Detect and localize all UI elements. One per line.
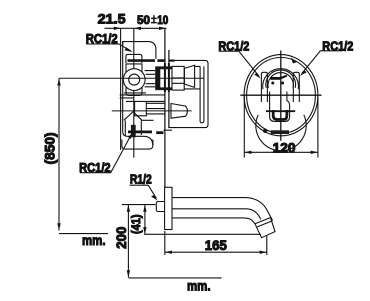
lever arm — [184, 66, 204, 122]
spout nipple — [156, 202, 164, 212]
svg-text:50: 50 — [137, 13, 150, 27]
spout tip bottom tangent line — [144, 233, 261, 235]
wall mounting nut thick C bracket — [155, 66, 172, 90]
temp indicator dots — [271, 82, 274, 85]
cartridge base lines — [120, 93, 165, 102]
handle hub trapezoid — [184, 65, 194, 87]
dimension arrow at x=166.2 — [159, 27, 166, 30]
spout tube top line — [172, 198, 273, 221]
spout flange — [165, 187, 172, 229]
leader R1/2 — [130, 185, 157, 198]
centerline of valve vertical — [133, 28, 135, 157]
front view crosshair horizontal — [240, 94, 321, 96]
valve body outline top — [123, 42, 156, 59]
extension line x=120.6 — [120, 28, 122, 150]
front view inner ellipse — [247, 58, 316, 134]
extension line 165 right — [266, 236, 268, 255]
svg-text:120: 120 — [273, 141, 296, 156]
spout tube bottom line — [172, 218, 255, 224]
lower port outlet lines left of wall — [146, 103, 165, 114]
svg-text:200: 200 — [114, 227, 129, 249]
dimension arrow at x=121 — [114, 27, 121, 30]
bulb inner thick ring — [273, 110, 287, 120]
port tube lines right of circle — [145, 71, 156, 87]
right ear lug — [293, 72, 299, 102]
outlet thick channel — [128, 130, 152, 133]
lower port centerline — [112, 110, 192, 112]
dimension 165 — [165, 251, 267, 253]
svg-text:(850): (850) — [42, 132, 57, 164]
top port inner circle — [129, 74, 140, 85]
chord line — [266, 110, 295, 112]
thick channel bar right of wall — [170, 59, 175, 61]
index mark top-right — [291, 58, 297, 64]
temp indicator bar — [270, 77, 280, 80]
valve seat sides — [125, 120, 153, 136]
dark bar under bulb — [271, 130, 289, 134]
extension line 165 left — [164, 231, 166, 255]
dimension 120 — [244, 95, 318, 157]
valve body left edge — [123, 42, 153, 146]
svg-text:10: 10 — [157, 13, 168, 27]
outer trim bracket — [168, 60, 208, 127]
handle base circle — [256, 115, 306, 151]
svg-text:21.5: 21.5 — [98, 12, 127, 27]
svg-text:(41): (41) — [129, 215, 143, 235]
thick channel bar top — [128, 59, 156, 62]
inlet boss top — [126, 54, 142, 63]
mid box — [135, 102, 147, 116]
200 bottom corner line — [128, 277, 221, 279]
spout tube middle line — [172, 209, 261, 220]
wall line W2 — [168, 50, 170, 128]
body bottom plate — [122, 140, 153, 150]
index dot bottom-left — [263, 129, 267, 133]
top port outer circle — [123, 69, 145, 91]
handle neck and bulb — [270, 92, 290, 122]
handle dome arcs — [263, 69, 299, 90]
left ear lug — [261, 72, 267, 102]
horizontal centerline top port — [59, 77, 204, 79]
funnel dark plug — [131, 125, 136, 138]
svg-text:mm.: mm. — [187, 278, 211, 293]
dimension 21.5 / 50±10 line — [105, 27, 167, 29]
svg-text:165: 165 — [205, 238, 227, 253]
lower port spigot — [171, 104, 188, 119]
valve seat tent — [124, 112, 142, 121]
outlet thick channel step — [156, 131, 163, 134]
svg-text:R1/2: R1/2 — [130, 172, 152, 187]
dimension 200 — [127, 205, 129, 278]
dimension (41) — [144, 205, 146, 235]
wall line W1 — [164, 28, 166, 187]
extension line spout center — [122, 204, 156, 206]
front view outer ellipse — [244, 55, 318, 136]
dimension arrow at x=133.8 — [134, 27, 141, 30]
front view crosshair vertical — [280, 51, 282, 141]
trim stack right of wall — [172, 66, 184, 90]
spout tip aerator — [255, 218, 275, 238]
dimension 850 vertical line — [58, 78, 60, 230]
svg-text:mm.: mm. — [82, 233, 106, 248]
cartridge housing rect — [126, 64, 142, 96]
850 bottom corner line — [59, 233, 108, 235]
leader RC1/2 top-left — [86, 44, 131, 51]
